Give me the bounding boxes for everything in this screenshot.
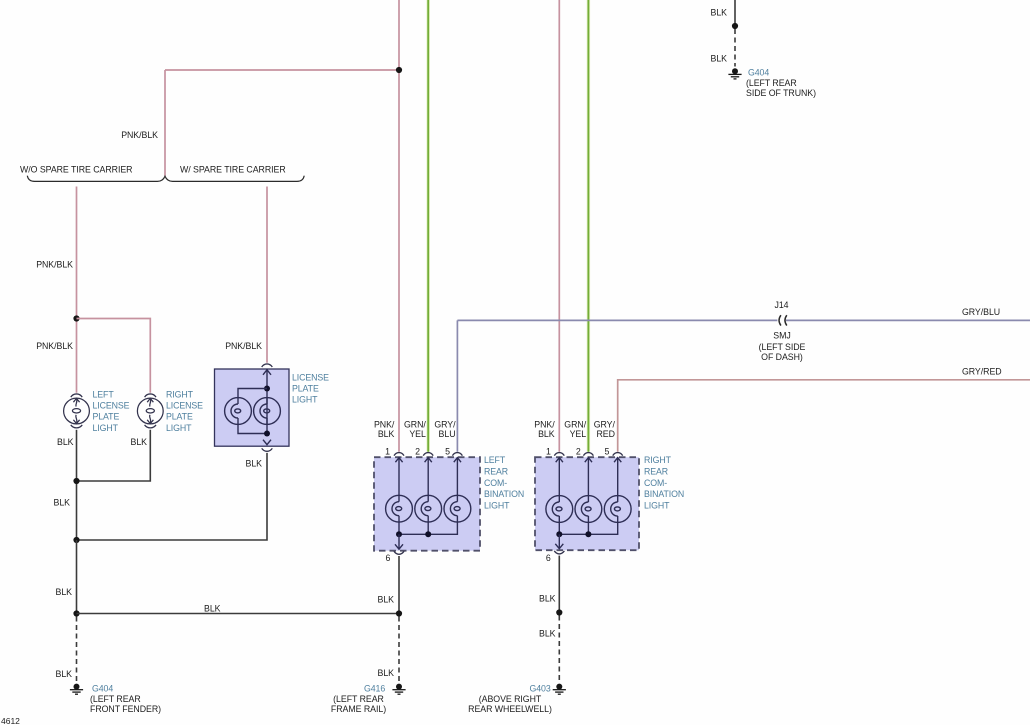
svg-text:BINATION: BINATION xyxy=(644,489,684,499)
svg-text:COM-: COM- xyxy=(644,478,667,488)
wire PNK/BLK vertical to right combination light pin 1 xyxy=(558,0,560,452)
svg-text:(LEFT REAR: (LEFT REAR xyxy=(746,78,797,88)
wire BLK below right license plate light xyxy=(77,430,151,481)
right box bus wires xyxy=(559,522,617,534)
svg-text:BLU: BLU xyxy=(439,429,456,439)
connector cap left box pin2 xyxy=(423,453,433,456)
svg-text:6: 6 xyxy=(386,553,391,563)
svg-text:BLK: BLK xyxy=(711,53,728,63)
svg-text:GRY/: GRY/ xyxy=(594,419,616,429)
wire GRY/BLU horizontal from right edge xyxy=(457,319,777,321)
svg-text:LIGHT: LIGHT xyxy=(292,395,318,405)
component box LEFT REAR COMBINATION LIGHT xyxy=(374,457,480,551)
svg-text:1: 1 xyxy=(385,446,390,456)
svg-text:YEL: YEL xyxy=(409,429,426,439)
svg-text:W/O SPARE TIRE CARRIER: W/O SPARE TIRE CARRIER xyxy=(20,165,132,175)
wire BLK long horizontal to G416 drop xyxy=(77,613,400,615)
connector cup left box pin6 xyxy=(394,551,404,554)
wire PNK/BLK vertical drop to brace xyxy=(164,70,166,176)
connector cup below license plate light box xyxy=(262,448,273,451)
lamp right box bulb 3 xyxy=(604,496,631,523)
svg-text:(LEFT REAR: (LEFT REAR xyxy=(333,694,384,704)
wire PNK/BLK right branch w/ spare tire carrier xyxy=(266,187,268,363)
wire PNK/BLK horizontal sub-branch to right license plate light xyxy=(77,319,151,393)
node junction dot at (76.5,540) xyxy=(73,537,79,543)
svg-text:PLATE: PLATE xyxy=(166,412,193,422)
connector cap left box pin1 xyxy=(394,453,404,456)
svg-text:PNK/BLK: PNK/BLK xyxy=(36,341,73,351)
connector cap above right license plate light xyxy=(145,394,156,397)
svg-text:PNK/BLK: PNK/BLK xyxy=(121,130,158,140)
svg-text:LEFT: LEFT xyxy=(93,390,115,400)
connector cup below left license plate light xyxy=(71,425,82,428)
node dot left box bus 1 xyxy=(396,531,402,537)
svg-text:COM-: COM- xyxy=(484,478,507,488)
component box LICENSE PLATE LIGHT xyxy=(215,369,290,446)
arrow down right box pin6 xyxy=(555,544,563,549)
left box internal wire pin2 xyxy=(427,457,429,495)
svg-text:LIGHT: LIGHT xyxy=(93,423,119,433)
svg-text:1: 1 xyxy=(546,446,551,456)
svg-text:RED: RED xyxy=(596,429,614,439)
svg-text:PLATE: PLATE xyxy=(93,412,120,422)
svg-text:GRY/: GRY/ xyxy=(434,419,456,429)
svg-text:OF DASH): OF DASH) xyxy=(761,352,803,362)
svg-text:G404: G404 xyxy=(92,684,113,694)
wire GRY/BLU vertical drop to left box pin5 xyxy=(456,320,458,451)
svg-text:SMJ: SMJ xyxy=(773,330,790,340)
node junction dot on PNK/BLK at (399,70) xyxy=(396,67,402,73)
right box internal wire pin2 xyxy=(587,457,589,495)
svg-text:BLK: BLK xyxy=(246,458,263,468)
svg-text:BINATION: BINATION xyxy=(484,489,524,499)
svg-text:FRONT FENDER): FRONT FENDER) xyxy=(90,704,161,714)
svg-text:BLK: BLK xyxy=(204,604,221,614)
node dot inside license box top xyxy=(264,386,270,392)
svg-text:LIGHT: LIGHT xyxy=(644,500,670,510)
wire inside license box parallel loop xyxy=(238,389,267,399)
svg-text:LEFT: LEFT xyxy=(484,455,506,465)
wire BLK vertical to lower junction xyxy=(76,540,78,614)
svg-text:BLK: BLK xyxy=(539,594,556,604)
lamp left box bulb 2 xyxy=(415,495,442,522)
svg-text:2: 2 xyxy=(415,446,420,456)
node junction dot at (559.3,612.5) xyxy=(556,609,562,615)
wire GRN/YEL vertical to left combination light pin 2 xyxy=(427,0,430,452)
left box pin6 internal wire xyxy=(398,534,400,549)
lamp left box bulb 1 xyxy=(386,495,413,522)
lamp right box bulb 2 xyxy=(575,496,602,523)
lamp right license plate light xyxy=(137,398,163,424)
arrow up left box pin5 xyxy=(454,458,461,463)
node dot inside license box bottom xyxy=(264,431,270,437)
arrow up at license box entry xyxy=(263,370,271,375)
svg-text:G416: G416 xyxy=(364,684,385,694)
svg-text:REAR WHEELWELL): REAR WHEELWELL) xyxy=(468,704,552,714)
left box internal wire pin5 xyxy=(456,457,458,495)
wire BLK dashed to G416 xyxy=(398,617,400,683)
svg-text:2: 2 xyxy=(576,446,581,456)
arrow up left box pin1 xyxy=(395,458,402,463)
node junction dot at (76.5,318.5) xyxy=(73,315,79,321)
wire BLK below right box pin6 xyxy=(558,556,560,613)
svg-text:(ABOVE RIGHT: (ABOVE RIGHT xyxy=(479,694,542,704)
node dot right box bus 1 xyxy=(556,531,562,537)
right box pin6 internal wire xyxy=(558,534,560,549)
wire inside license box vertical top xyxy=(266,370,268,434)
svg-text:SIDE OF TRUNK): SIDE OF TRUNK) xyxy=(746,88,816,98)
connector cap above left license plate light xyxy=(71,394,82,397)
svg-text:LIGHT: LIGHT xyxy=(484,500,510,510)
svg-text:BLK: BLK xyxy=(378,429,395,439)
svg-text:GRY/BLU: GRY/BLU xyxy=(962,307,1000,317)
wire GRY/RED horizontal from right edge xyxy=(618,380,1030,452)
lamp license plate light bulb left xyxy=(225,398,252,425)
svg-text:BLK: BLK xyxy=(538,429,555,439)
svg-text:G403: G403 xyxy=(530,684,551,694)
left box internal wire pin1 xyxy=(398,457,400,495)
node dot left box bus 2 xyxy=(425,531,431,537)
svg-text:BLK: BLK xyxy=(539,628,556,638)
ground G403 above right rear wheelwell xyxy=(553,684,566,695)
svg-text:BLK: BLK xyxy=(56,587,73,597)
svg-text:BLK: BLK xyxy=(56,669,73,679)
connector cap right box pin1 xyxy=(554,453,564,456)
svg-text:BLK: BLK xyxy=(378,668,395,678)
node dot right box bus 2 xyxy=(585,531,591,537)
wire BLK below left box pin6 xyxy=(398,556,400,614)
lamp license plate light bulb right xyxy=(254,398,281,425)
connector J14 SMJ inline arcs xyxy=(779,315,781,325)
right box internal wire pin1 xyxy=(558,457,560,495)
svg-text:PLATE: PLATE xyxy=(292,384,319,394)
node junction dot at (399,613.5) xyxy=(396,610,402,616)
arrow down at license box exit xyxy=(263,440,271,445)
svg-text:LIGHT: LIGHT xyxy=(166,423,192,433)
svg-text:RIGHT: RIGHT xyxy=(166,390,194,400)
arrow up right box pin2 xyxy=(585,458,592,463)
connector cap right box pin5 xyxy=(613,453,623,456)
svg-text:BLK: BLK xyxy=(54,498,71,508)
svg-text:J14: J14 xyxy=(774,300,788,310)
svg-text:4612: 4612 xyxy=(1,716,20,725)
svg-text:W/ SPARE TIRE CARRIER: W/ SPARE TIRE CARRIER xyxy=(180,165,286,175)
right box internal wire pin5 xyxy=(617,457,619,495)
connector cup right box pin6 xyxy=(554,551,564,554)
svg-text:PNK/BLK: PNK/BLK xyxy=(225,341,262,351)
wire BLK solid top right xyxy=(734,0,736,26)
svg-text:YEL: YEL xyxy=(570,429,587,439)
lamp right box bulb 1 xyxy=(546,496,573,523)
wire BLK dashed to G404 trunk xyxy=(734,29,736,67)
ground G404 left rear front fender xyxy=(70,684,83,695)
wire GRN/YEL vertical to right combination light pin 2 xyxy=(587,0,590,452)
svg-text:FRAME RAIL): FRAME RAIL) xyxy=(331,704,386,714)
svg-text:BLK: BLK xyxy=(378,595,395,605)
svg-text:LICENSE: LICENSE xyxy=(292,372,329,382)
svg-text:BLK: BLK xyxy=(131,437,148,447)
arrow up right box pin1 xyxy=(556,458,563,463)
wire BLK from license box down and over xyxy=(77,453,268,540)
wire PNK/BLK vertical to left combination light pin 1 xyxy=(398,0,400,452)
brace spare tire carrier options xyxy=(27,176,304,182)
svg-text:GRN/: GRN/ xyxy=(404,419,426,429)
svg-text:LICENSE: LICENSE xyxy=(93,401,130,411)
svg-text:(LEFT SIDE: (LEFT SIDE xyxy=(759,342,806,352)
arrow up right box pin5 xyxy=(614,458,621,463)
svg-text:BLK: BLK xyxy=(57,437,74,447)
ground G404 left rear side of trunk xyxy=(728,68,741,79)
arrow down left box pin6 xyxy=(395,544,403,549)
lamp left license plate light xyxy=(64,398,90,424)
left box bus wires xyxy=(399,522,457,534)
component box RIGHT REAR COMBINATION LIGHT xyxy=(535,457,639,550)
connector cap above license plate light box xyxy=(262,364,273,367)
svg-text:GRY/RED: GRY/RED xyxy=(962,367,1002,377)
svg-text:PNK/: PNK/ xyxy=(374,419,395,429)
svg-text:(LEFT REAR: (LEFT REAR xyxy=(90,694,141,704)
node junction dot at (76.5,613.5) xyxy=(73,610,79,616)
svg-text:PNK/: PNK/ xyxy=(534,419,555,429)
wire BLK dashed to G403 xyxy=(558,616,560,683)
svg-text:5: 5 xyxy=(445,446,450,456)
ground G416 left rear frame rail xyxy=(392,684,405,695)
svg-text:REAR: REAR xyxy=(644,467,668,477)
svg-text:RIGHT: RIGHT xyxy=(644,455,672,465)
connector cap left box pin5 xyxy=(452,453,462,456)
lamp left box bulb 3 xyxy=(444,495,471,522)
svg-text:LICENSE: LICENSE xyxy=(166,401,203,411)
wire PNK/BLK left branch w/o spare tire carrier xyxy=(76,187,78,393)
arrow up left box pin2 xyxy=(425,458,432,463)
wire BLK below left license plate light xyxy=(76,430,78,540)
connector cap right box pin2 xyxy=(583,453,593,456)
svg-text:GRN/: GRN/ xyxy=(564,419,586,429)
svg-text:6: 6 xyxy=(546,553,551,563)
svg-text:5: 5 xyxy=(604,446,609,456)
connector cup below right license plate light xyxy=(145,425,156,428)
svg-text:REAR: REAR xyxy=(484,467,508,477)
wire PNK/BLK horizontal branch at y=70 xyxy=(165,69,399,71)
wire BLK dashed to G404 left rear front fender xyxy=(76,617,78,683)
svg-text:PNK/BLK: PNK/BLK xyxy=(36,260,73,270)
node junction dot at (735,26) xyxy=(732,23,738,29)
svg-text:G404: G404 xyxy=(748,67,769,77)
svg-text:BLK: BLK xyxy=(711,7,728,17)
node junction dot at (76.5,481) xyxy=(73,478,79,484)
